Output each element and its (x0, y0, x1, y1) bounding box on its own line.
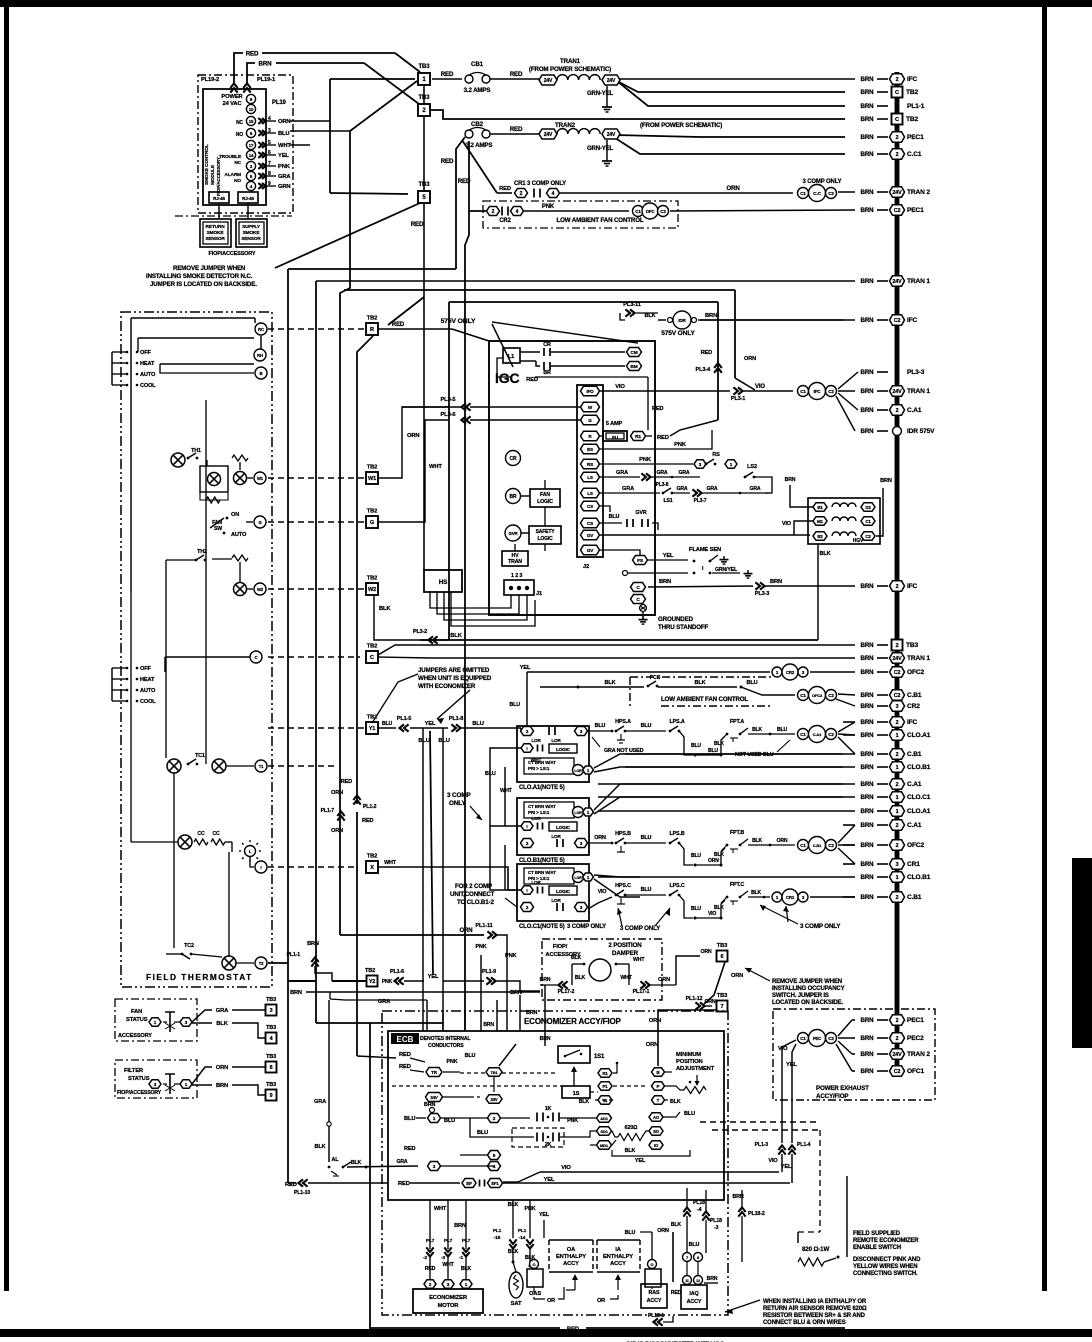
svg-text:OFC: OFC (646, 209, 655, 214)
svg-text:G: G (588, 418, 592, 423)
svg-text:ORN: ORN (278, 119, 290, 125)
svg-text:12: 12 (696, 1279, 700, 1283)
svg-text:BLK: BLK (644, 313, 655, 319)
svg-text:GV: GV (587, 548, 594, 553)
svg-text:L1: L1 (508, 354, 514, 360)
svg-text:BLK: BLK (751, 890, 761, 896)
svg-text:HEAT: HEAT (140, 361, 155, 367)
svg-text:JUMPER IS LOCATED ON BACKSIDE.: JUMPER IS LOCATED ON BACKSIDE. (150, 281, 257, 288)
svg-text:OA: OA (567, 1247, 576, 1253)
svg-text:RS: RS (587, 462, 593, 467)
svg-text:BLU: BLU (684, 1111, 695, 1117)
svg-text:RJ-45: RJ-45 (242, 196, 254, 201)
svg-text:C: C (370, 655, 374, 661)
svg-text:ES: ES (587, 447, 593, 452)
svg-text:CLO.A1: CLO.A1 (907, 732, 931, 739)
svg-text:BLK: BLK (575, 975, 586, 981)
svg-text:C2: C2 (894, 1069, 901, 1075)
svg-text:GROUNDED: GROUNDED (658, 616, 694, 623)
svg-text:SAFETY: SAFETY (536, 529, 556, 535)
svg-text:CM: CM (630, 350, 637, 356)
svg-text:GRA: GRA (656, 470, 667, 476)
svg-text:BRN: BRN (290, 990, 302, 996)
svg-text:RED: RED (341, 779, 352, 785)
svg-text:C2: C2 (894, 318, 901, 324)
svg-text:BRN: BRN (861, 89, 875, 96)
svg-text:P: P (657, 1084, 660, 1089)
svg-text:MINIMUM: MINIMUM (676, 1052, 701, 1058)
svg-text:CC: CC (197, 831, 205, 837)
svg-text:3 COMP ONLY: 3 COMP ONLY (800, 923, 841, 930)
svg-text:YEL: YEL (278, 153, 289, 159)
svg-text:FIOP/: FIOP/ (553, 944, 568, 950)
svg-text:SO: SO (653, 1129, 660, 1134)
svg-text:IFO: IFO (586, 389, 594, 394)
svg-text:BLU: BLU (382, 721, 393, 727)
svg-text:ACCY: ACCY (647, 1298, 662, 1304)
svg-text:WHEN INSTALLING IA ENTHALPY OR: WHEN INSTALLING IA ENTHALPY OR (763, 1299, 867, 1305)
svg-text:MOTOR: MOTOR (438, 1303, 460, 1309)
svg-text:WHT: WHT (620, 975, 632, 981)
svg-text:WHT: WHT (384, 860, 397, 866)
svg-text:3 COMP ONLY: 3 COMP ONLY (802, 179, 841, 185)
svg-text:TRAN 2: TRAN 2 (907, 189, 930, 196)
svg-text:SWITCH. JUMPER IS: SWITCH. JUMPER IS (772, 993, 829, 999)
svg-text:LS: LS (587, 475, 593, 480)
svg-text:CLO.B1: CLO.B1 (907, 874, 931, 881)
svg-text:OFF: OFF (140, 666, 151, 672)
svg-text:R: R (370, 327, 374, 333)
svg-text:RED: RED (404, 1146, 415, 1152)
svg-text:PL7: PL7 (426, 1238, 435, 1244)
svg-text:C2: C2 (828, 732, 834, 737)
svg-text:ACCY: ACCY (610, 1261, 626, 1267)
svg-text:BRN: BRN (770, 579, 782, 585)
svg-text:GRA: GRA (396, 1159, 407, 1165)
svg-text:RED: RED (398, 1181, 410, 1187)
svg-text:24V: 24V (892, 1052, 902, 1058)
svg-text:3.2 AMPS: 3.2 AMPS (464, 87, 491, 94)
svg-text:ORN: ORN (649, 1018, 661, 1024)
svg-text:CR2: CR2 (786, 670, 795, 675)
svg-text:GRA: GRA (678, 470, 689, 476)
svg-text:C1: C1 (635, 209, 641, 214)
svg-text:GRA: GRA (216, 1008, 229, 1014)
svg-text:3 COMP: 3 COMP (447, 792, 471, 799)
svg-text:HPS.A: HPS.A (615, 719, 631, 725)
svg-text:TB1: TB1 (490, 1070, 498, 1075)
svg-text:L: L (249, 849, 252, 854)
svg-text:R1: R1 (635, 434, 641, 440)
svg-text:TB3: TB3 (266, 1054, 276, 1060)
svg-text:1: 1 (896, 795, 899, 801)
svg-text:CLO.C1(NOTE 5): CLO.C1(NOTE 5) (519, 924, 565, 930)
svg-text:CLO.C1: CLO.C1 (907, 794, 931, 801)
svg-text:PL1-10: PL1-10 (294, 1190, 310, 1196)
svg-text:BRN: BRN (259, 61, 273, 68)
svg-text:RETURN AIR SENSOR REMOVE 620Ω: RETURN AIR SENSOR REMOVE 620Ω (763, 1306, 867, 1312)
svg-text:LOGIC: LOGIC (537, 536, 553, 542)
svg-text:24V: 24V (607, 78, 616, 84)
svg-text:NO: NO (236, 132, 243, 138)
svg-text:GRN-YEL: GRN-YEL (587, 91, 613, 97)
svg-text:TH1: TH1 (191, 448, 201, 454)
svg-text:BLU: BLU (691, 743, 701, 749)
svg-text:TB3: TB3 (906, 642, 918, 649)
svg-text:M1: M1 (817, 519, 824, 524)
svg-text:NOT USED BLU: NOT USED BLU (735, 752, 774, 758)
svg-text:PL1-5: PL1-5 (397, 716, 412, 722)
svg-text:LOR: LOR (531, 816, 541, 821)
svg-text:2: 2 (896, 782, 899, 788)
svg-text:GRA: GRA (622, 486, 634, 492)
svg-text:BLU: BLU (477, 1130, 488, 1136)
svg-text:3 COMP ONLY: 3 COMP ONLY (620, 925, 661, 932)
svg-text:W2: W2 (368, 587, 376, 593)
svg-text:BLU: BLU (472, 721, 483, 727)
svg-text:WHT: WHT (500, 788, 513, 794)
svg-text:BLK: BLK (351, 1160, 362, 1166)
svg-text:GRA: GRA (378, 999, 391, 1005)
svg-text:ACCY/FIOP: ACCY/FIOP (816, 1093, 848, 1100)
svg-text:STATUS: STATUS (128, 1076, 150, 1082)
svg-text:CR1: CR1 (907, 861, 920, 868)
svg-text:2: 2 (896, 584, 899, 590)
svg-text:BLK: BLK (714, 741, 724, 747)
svg-text:TROUBLE: TROUBLE (219, 154, 242, 160)
svg-text:BRN: BRN (861, 842, 875, 849)
svg-text:PNK: PNK (674, 442, 687, 448)
svg-text:OFC1: OFC1 (907, 1068, 924, 1075)
svg-text:SENSOR: SENSOR (241, 236, 261, 242)
svg-text:GRA: GRA (706, 486, 717, 492)
svg-text:RED: RED (399, 1064, 411, 1070)
svg-text:C2: C2 (894, 208, 901, 214)
svg-text:PL18: PL18 (693, 1200, 705, 1206)
svg-text:VIO: VIO (768, 1158, 778, 1164)
svg-text:BLU: BLU (777, 727, 788, 733)
svg-text:BLU: BLU (641, 887, 652, 893)
svg-text:FIOP/ACCESSORY: FIOP/ACCESSORY (209, 251, 256, 257)
svg-text:1S: 1S (573, 1091, 580, 1097)
svg-text:FILTER: FILTER (124, 1068, 144, 1074)
svg-text:RAS: RAS (649, 1290, 660, 1296)
svg-text:24V: 24V (892, 279, 902, 285)
svg-text:C.B1: C.B1 (907, 751, 922, 758)
svg-text:C1: C1 (800, 191, 806, 196)
svg-text:SD1: SD1 (600, 1129, 608, 1134)
svg-text:PNK: PNK (278, 164, 291, 170)
svg-text:PEC1: PEC1 (907, 207, 924, 214)
svg-text:YEL: YEL (663, 553, 674, 559)
svg-text:SMOKE: SMOKE (207, 230, 225, 236)
svg-text:HEAT: HEAT (140, 677, 155, 683)
svg-text:P1: P1 (602, 1084, 608, 1089)
svg-text:BLK: BLK (752, 727, 762, 733)
svg-text:RED: RED (657, 435, 669, 441)
svg-text:ORN: ORN (331, 790, 343, 796)
svg-text:IFC: IFC (907, 583, 918, 590)
svg-text:TB3: TB3 (717, 993, 728, 999)
svg-text:O: O (533, 1262, 536, 1267)
svg-text:4: 4 (270, 1036, 273, 1042)
svg-text:CR1 3 COMP ONLY: CR1 3 COMP ONLY (514, 181, 566, 187)
svg-text:PL3-11: PL3-11 (623, 302, 642, 308)
svg-text:BRN: BRN (861, 189, 875, 196)
svg-text:GRA: GRA (616, 470, 628, 476)
svg-text:10: 10 (249, 107, 254, 112)
svg-text:24V: 24V (892, 190, 902, 196)
svg-text:J2: J2 (583, 564, 589, 570)
svg-text:ORN: ORN (731, 973, 743, 979)
svg-text:BRN: BRN (861, 808, 875, 815)
svg-text:BRN: BRN (861, 103, 875, 110)
svg-text:LOR: LOR (551, 834, 561, 839)
svg-text:RED: RED (510, 71, 523, 78)
svg-text:OR: OR (547, 1298, 555, 1304)
svg-text:Y2: Y2 (369, 979, 375, 985)
svg-text:PL3-4: PL3-4 (696, 367, 712, 373)
svg-text:620Ω: 620Ω (625, 1125, 639, 1131)
svg-text:RED: RED (362, 818, 373, 824)
svg-text:WITH ECONOMIZER: WITH ECONOMIZER (418, 683, 476, 690)
svg-text:IFC: IFC (907, 317, 918, 324)
svg-text:EF1: EF1 (491, 1181, 499, 1186)
svg-text:BRN: BRN (861, 407, 875, 414)
svg-text:BRN: BRN (861, 894, 875, 901)
svg-text:C1: C1 (800, 693, 806, 698)
svg-text:NC: NC (236, 120, 243, 126)
svg-text:PNK: PNK (639, 457, 652, 463)
svg-text:ORN: ORN (646, 1042, 658, 1048)
svg-text:BLK: BLK (571, 955, 582, 961)
svg-text:24V: 24V (892, 389, 902, 395)
svg-text:C2: C2 (660, 209, 666, 214)
svg-text:ORN: ORN (726, 185, 740, 192)
svg-text:ALARM: ALARM (224, 172, 241, 178)
svg-text:BRN: BRN (861, 207, 875, 214)
svg-text:BRN: BRN (861, 822, 875, 829)
svg-text:ECB: ECB (397, 1035, 414, 1044)
svg-text:1S1: 1S1 (594, 1054, 605, 1060)
svg-text:PL3-2: PL3-2 (413, 629, 427, 635)
svg-text:ENTHALPY: ENTHALPY (603, 1254, 633, 1260)
svg-text:SMOKE CONTROL: SMOKE CONTROL (204, 144, 210, 185)
svg-text:FIELD SUPPLIED: FIELD SUPPLIED (853, 1231, 901, 1237)
svg-text:LPS.B: LPS.B (669, 831, 684, 837)
svg-text:C.A1: C.A1 (907, 407, 922, 414)
svg-text:ENABLE SWITCH: ENABLE SWITCH (853, 1245, 901, 1251)
svg-text:BRN: BRN (861, 388, 875, 395)
svg-text:1 2 3: 1 2 3 (511, 573, 522, 579)
svg-text:C.C: C.C (813, 191, 821, 197)
svg-text:CB2: CB2 (471, 121, 484, 128)
svg-text:NO: NO (234, 178, 241, 184)
svg-text:FAN: FAN (131, 1009, 142, 1015)
svg-text:FS: FS (637, 558, 644, 564)
svg-text:TRAN 1: TRAN 1 (907, 388, 930, 395)
svg-text:GRA NOT USED: GRA NOT USED (604, 748, 644, 754)
svg-text:SMOKE: SMOKE (243, 230, 261, 236)
svg-text:TC1: TC1 (195, 753, 205, 759)
svg-text:LOGIC: LOGIC (556, 825, 571, 830)
svg-text:BRN: BRN (861, 1035, 875, 1042)
svg-text:BRN: BRN (540, 977, 551, 983)
svg-text:BLU: BLU (485, 771, 496, 777)
svg-text:PL7: PL7 (462, 1238, 471, 1244)
svg-text:C.B1: C.B1 (813, 843, 822, 848)
svg-text:CLO.B1(NOTE 5): CLO.B1(NOTE 5) (519, 858, 565, 864)
svg-text:C.B1: C.B1 (907, 894, 922, 901)
svg-text:TB2: TB2 (367, 465, 378, 471)
svg-text:2: 2 (896, 408, 899, 414)
svg-text:RETURN: RETURN (205, 224, 225, 230)
svg-text:LPS.C: LPS.C (669, 883, 684, 889)
svg-text:15: 15 (249, 119, 254, 124)
svg-text:-14: -14 (519, 1235, 526, 1241)
svg-text:BRN: BRN (861, 583, 875, 590)
svg-text:-3: -3 (714, 1225, 719, 1231)
svg-text:IDR: IDR (678, 318, 686, 323)
svg-text:PL3-3: PL3-3 (755, 591, 770, 597)
svg-text:PEC2: PEC2 (907, 1035, 924, 1042)
svg-text:I: I (526, 746, 527, 751)
svg-text:14: 14 (249, 153, 254, 158)
svg-text:2: 2 (896, 843, 899, 849)
svg-text:LOW AMBIENT FAN CONTROL: LOW AMBIENT FAN CONTROL (556, 217, 643, 224)
svg-text:RED: RED (441, 71, 454, 78)
svg-text:BR: BR (543, 370, 551, 376)
svg-text:OR: OR (597, 1298, 605, 1304)
svg-text:LOR: LOR (574, 876, 582, 880)
svg-text:RS: RS (712, 452, 720, 458)
svg-text:PL18-1: PL18-1 (648, 1313, 664, 1319)
svg-text:BLU: BLU (404, 1116, 415, 1122)
svg-text:BRN: BRN (540, 1036, 551, 1042)
svg-text:FAN: FAN (540, 492, 550, 498)
svg-text:24V: 24V (544, 132, 553, 138)
svg-text:PL1-12: PL1-12 (686, 996, 703, 1002)
svg-text:COOL: COOL (140, 383, 156, 389)
svg-text:BRN: BRN (861, 317, 875, 324)
svg-text:RED: RED (671, 1290, 682, 1296)
svg-text:FU: FU (612, 435, 619, 440)
svg-text:HGV: HGV (853, 538, 864, 544)
svg-text:BLU: BLU (509, 702, 520, 708)
svg-text:LPS.A: LPS.A (669, 719, 684, 725)
svg-text:BLK: BLK (579, 1099, 590, 1105)
svg-text:BLK: BLK (752, 838, 762, 844)
svg-text:O: O (651, 1262, 654, 1267)
svg-text:RED: RED (441, 158, 454, 165)
svg-text:BLK: BLK (819, 551, 830, 557)
svg-text:SAT: SAT (511, 1301, 522, 1307)
svg-text:BRN: BRN (785, 477, 796, 483)
svg-text:PL18: PL18 (710, 1218, 722, 1224)
svg-text:BLU: BLU (641, 723, 652, 729)
svg-text:FIOP/ACCESSORY: FIOP/ACCESSORY (216, 157, 221, 196)
svg-text:YELLOW WIRES WHEN: YELLOW WIRES WHEN (853, 1264, 917, 1270)
svg-text:C.C1: C.C1 (907, 151, 922, 158)
svg-text:VIO: VIO (708, 911, 716, 917)
svg-text:RED: RED (510, 126, 523, 133)
svg-text:TB2: TB2 (367, 509, 378, 515)
svg-text:-15: -15 (494, 1235, 501, 1241)
svg-text:C2: C2 (828, 693, 834, 698)
svg-text:REMOTE ECONOMIZER: REMOTE ECONOMIZER (853, 1238, 919, 1244)
svg-text:ORN: ORN (407, 433, 419, 439)
svg-text:STATUS: STATUS (126, 1017, 148, 1023)
svg-text:TRAN 1: TRAN 1 (907, 655, 930, 662)
svg-text:PL18-2: PL18-2 (748, 1211, 765, 1217)
svg-text:RED: RED (246, 51, 259, 58)
svg-text:C2: C2 (828, 1036, 834, 1041)
svg-text:GRA: GRA (278, 174, 291, 180)
svg-text:C.A1: C.A1 (813, 732, 822, 737)
svg-text:TR: TR (431, 1070, 438, 1075)
svg-text:2: 2 (896, 1036, 899, 1042)
svg-text:PL1-2: PL1-2 (363, 804, 377, 810)
svg-text:DENOTES INTERNAL: DENOTES INTERNAL (420, 1036, 471, 1042)
svg-text:BRN: BRN (861, 369, 875, 376)
svg-text:1: 1 (896, 875, 899, 881)
svg-text:HS: HS (439, 579, 448, 586)
svg-text:C1: C1 (865, 519, 871, 524)
svg-text:PL1-6: PL1-6 (390, 969, 404, 975)
svg-text:CB1: CB1 (471, 61, 484, 68)
svg-text:1K: 1K (545, 1106, 552, 1112)
svg-text:BLK: BLK (694, 680, 705, 686)
svg-text:WHT: WHT (429, 464, 442, 470)
svg-text:PL3-7: PL3-7 (694, 498, 707, 504)
svg-text:TB2: TB2 (367, 854, 378, 860)
svg-text:PL1-4: PL1-4 (797, 1142, 811, 1148)
svg-text:YEL: YEL (425, 721, 436, 727)
svg-text:FLAME SEN: FLAME SEN (689, 547, 721, 553)
svg-text:BRN: BRN (861, 861, 875, 868)
svg-text:BLK: BLK (714, 852, 724, 858)
svg-text:TB3: TB3 (266, 997, 276, 1003)
svg-text:BRN: BRN (861, 655, 875, 662)
svg-text:24V: 24V (430, 1095, 438, 1100)
svg-text:RH: RH (257, 353, 263, 358)
svg-text:PL3-5: PL3-5 (440, 397, 456, 403)
svg-text:TRAN1: TRAN1 (560, 58, 581, 65)
svg-text:REMOVE JUMPER WHEN: REMOVE JUMPER WHEN (173, 265, 246, 272)
svg-text:BLU: BLU (689, 1242, 700, 1248)
svg-text:AUTO: AUTO (231, 532, 247, 538)
svg-text:TB2: TB2 (906, 89, 918, 96)
svg-text:PL1-1: PL1-1 (287, 952, 301, 958)
svg-text:ENTHALPY: ENTHALPY (556, 1254, 586, 1260)
svg-text:BRN: BRN (861, 151, 875, 158)
svg-text:MD1: MD1 (600, 1143, 609, 1148)
svg-text:AL: AL (331, 1157, 339, 1163)
svg-text:PL19-1: PL19-1 (257, 77, 276, 83)
svg-text:CONDUCTORS: CONDUCTORS (428, 1043, 464, 1049)
svg-text:TB3: TB3 (266, 1082, 276, 1088)
svg-text:BRN: BRN (861, 1051, 875, 1058)
svg-text:BRN: BRN (861, 751, 875, 758)
svg-text:OFC2: OFC2 (812, 693, 823, 698)
svg-text:INSTALLING SMOKE DETECTOR N.C.: INSTALLING SMOKE DETECTOR N.C. (146, 273, 253, 280)
svg-text:PNK: PNK (567, 1118, 578, 1124)
svg-text:ON: ON (231, 512, 239, 518)
svg-text:BLU: BLU (438, 738, 449, 744)
svg-text:IFC: IFC (907, 719, 918, 726)
svg-text:LOR: LOR (551, 898, 561, 903)
svg-text:DAMPER: DAMPER (612, 950, 639, 957)
